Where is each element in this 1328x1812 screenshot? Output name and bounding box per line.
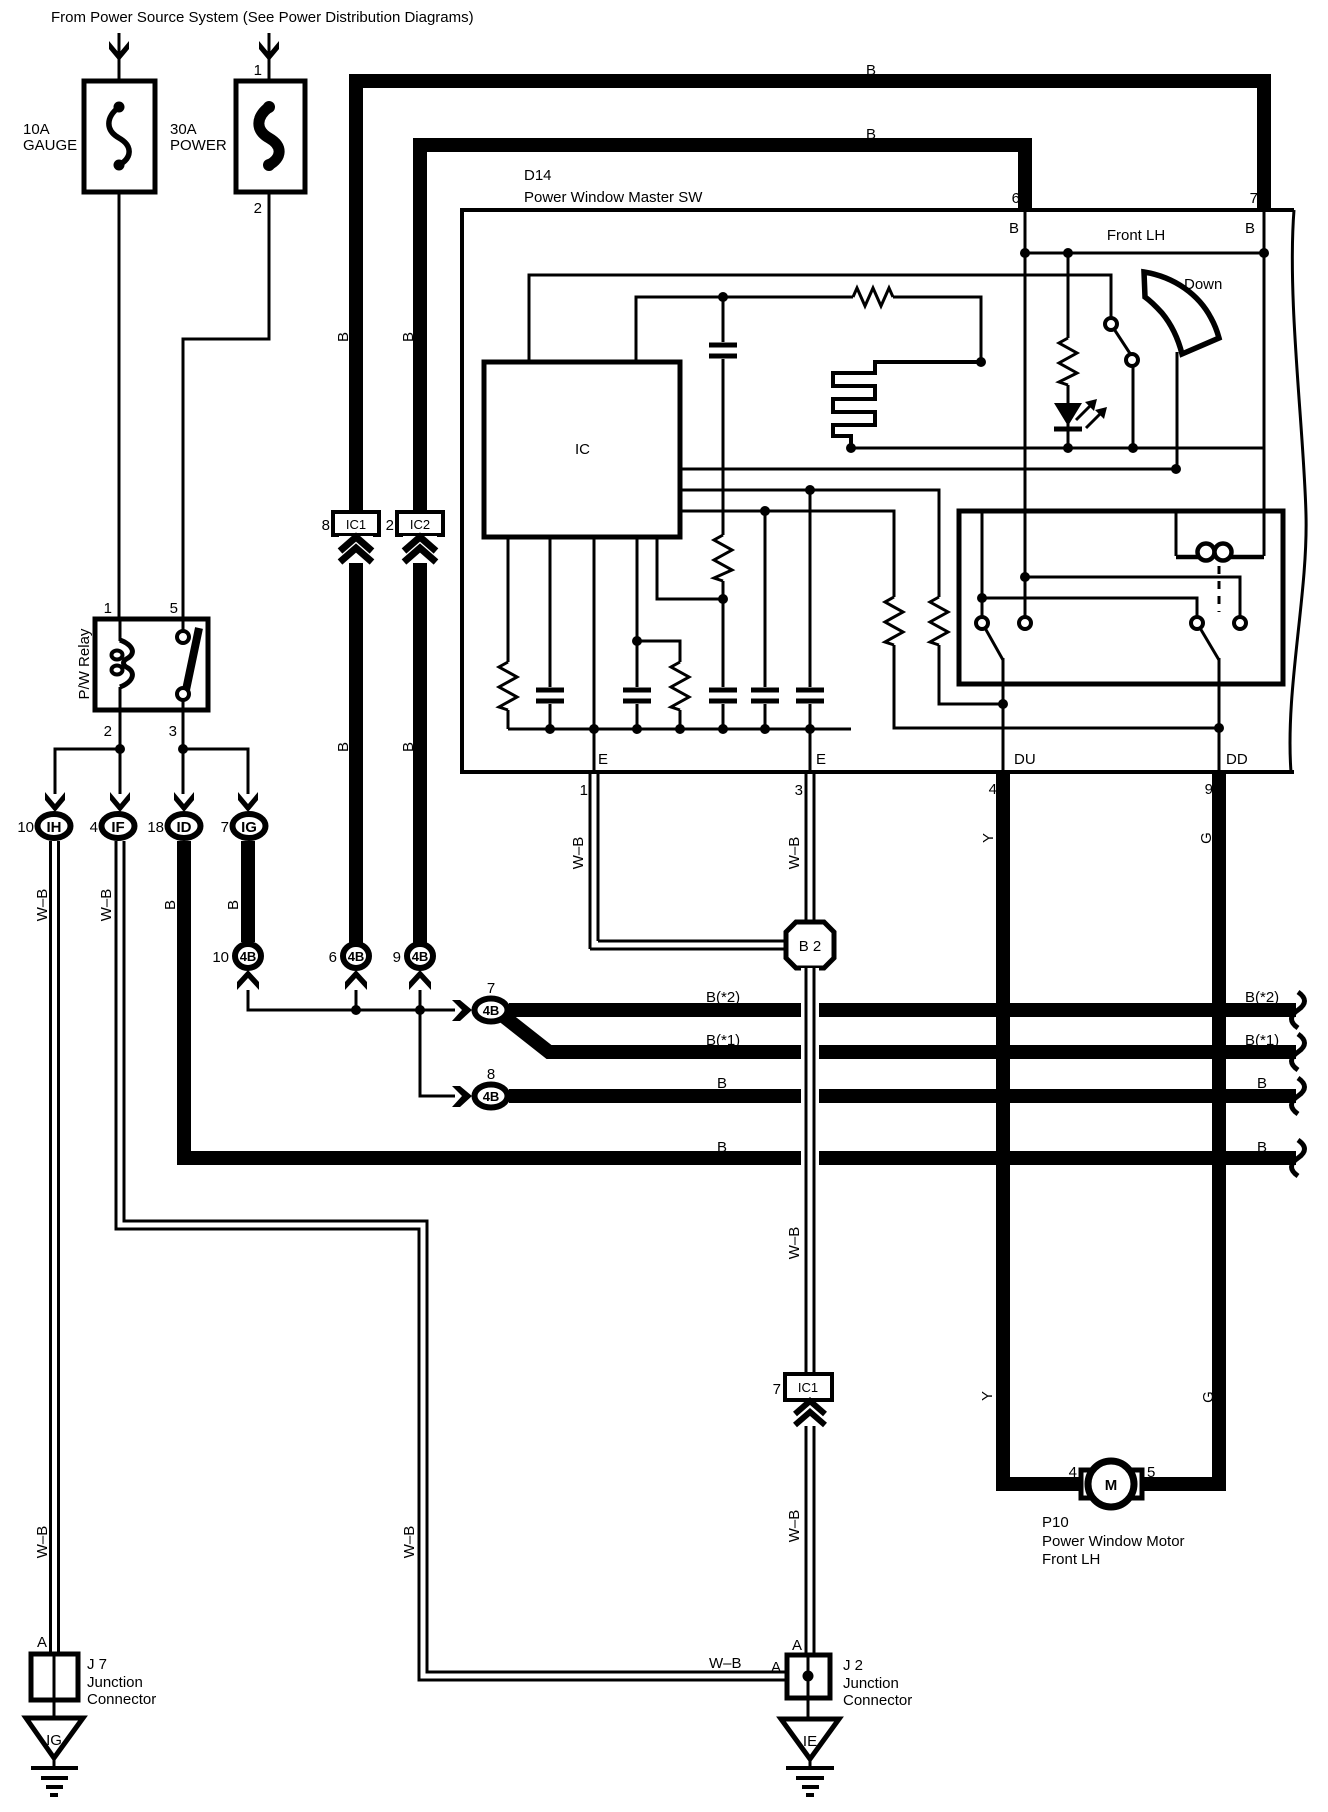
svg-text:Connector: Connector [87, 1691, 156, 1708]
svg-text:A: A [792, 1637, 802, 1654]
svg-text:IG: IG [46, 1732, 62, 1749]
svg-text:B(*2): B(*2) [1245, 989, 1279, 1006]
svg-text:10A: 10A [23, 121, 50, 138]
svg-text:A: A [37, 1634, 47, 1651]
svg-text:5: 5 [1147, 1464, 1155, 1481]
svg-text:4B: 4B [483, 1003, 500, 1018]
svg-text:4B: 4B [240, 949, 257, 964]
svg-text:5: 5 [170, 600, 178, 617]
svg-text:M: M [1105, 1477, 1118, 1494]
svg-text:W–B: W–B [98, 889, 115, 922]
svg-text:E: E [816, 751, 826, 768]
svg-text:B: B [400, 332, 417, 342]
svg-text:9: 9 [1205, 781, 1213, 798]
svg-text:W–B: W–B [570, 837, 587, 870]
svg-text:7: 7 [221, 819, 229, 836]
svg-text:W–B: W–B [34, 889, 51, 922]
svg-text:10: 10 [17, 819, 34, 836]
svg-text:B: B [1257, 1139, 1267, 1156]
svg-text:Y: Y [980, 833, 997, 843]
svg-text:9: 9 [393, 949, 401, 966]
svg-text:2: 2 [386, 517, 394, 534]
svg-text:B: B [866, 126, 876, 143]
svg-text:G: G [1198, 832, 1215, 844]
svg-text:IC: IC [575, 441, 590, 458]
svg-text:4: 4 [90, 819, 98, 836]
svg-text:ID: ID [177, 819, 192, 836]
svg-text:B 2: B 2 [799, 938, 822, 955]
svg-text:3: 3 [795, 782, 803, 799]
svg-text:DD: DD [1226, 751, 1248, 768]
svg-text:DU: DU [1014, 751, 1036, 768]
svg-text:Y: Y [979, 1391, 996, 1401]
svg-text:J 7: J 7 [87, 1656, 107, 1673]
svg-text:Front LH: Front LH [1107, 227, 1165, 244]
svg-text:18: 18 [147, 819, 164, 836]
svg-text:IF: IF [111, 819, 124, 836]
svg-text:B: B [717, 1075, 727, 1092]
svg-text:P10: P10 [1042, 1514, 1069, 1531]
svg-text:Power Window Master SW: Power Window Master SW [524, 189, 703, 206]
svg-text:B: B [866, 62, 876, 79]
svg-text:D14: D14 [524, 167, 552, 184]
svg-text:B(*1): B(*1) [1245, 1032, 1279, 1049]
svg-text:8: 8 [487, 1066, 495, 1083]
svg-text:B: B [1245, 220, 1255, 237]
svg-text:From Power Source System (See: From Power Source System (See Power Dist… [51, 9, 474, 26]
svg-text:B(*2): B(*2) [706, 989, 740, 1006]
svg-text:B(*1): B(*1) [706, 1032, 740, 1049]
svg-text:IC1: IC1 [346, 517, 366, 532]
svg-text:1: 1 [580, 782, 588, 799]
svg-text:Front LH: Front LH [1042, 1551, 1100, 1568]
svg-text:IG: IG [241, 819, 257, 836]
svg-text:7: 7 [773, 1381, 781, 1398]
svg-text:2: 2 [254, 200, 262, 217]
svg-text:IC2: IC2 [410, 517, 430, 532]
svg-text:Power Window Motor: Power Window Motor [1042, 1533, 1185, 1550]
svg-text:8: 8 [322, 517, 330, 534]
svg-text:B: B [1257, 1075, 1267, 1092]
svg-text:Junction: Junction [87, 1674, 143, 1691]
svg-text:E: E [598, 751, 608, 768]
svg-text:B: B [162, 900, 179, 910]
svg-text:B: B [335, 332, 352, 342]
svg-text:4: 4 [1069, 1464, 1077, 1481]
svg-text:Junction: Junction [843, 1675, 899, 1692]
svg-text:4B: 4B [348, 949, 365, 964]
svg-text:POWER: POWER [170, 137, 227, 154]
svg-text:10: 10 [212, 949, 229, 966]
svg-text:30A: 30A [170, 121, 197, 138]
svg-text:GAUGE: GAUGE [23, 137, 77, 154]
svg-text:P/W Relay: P/W Relay [76, 628, 93, 699]
svg-text:W–B: W–B [401, 1526, 418, 1559]
svg-text:7: 7 [1250, 190, 1258, 207]
svg-text:4B: 4B [483, 1089, 500, 1104]
svg-text:W–B: W–B [709, 1655, 742, 1672]
svg-text:Connector: Connector [843, 1692, 912, 1709]
svg-text:4B: 4B [412, 949, 429, 964]
svg-text:B: B [717, 1139, 727, 1156]
svg-text:W–B: W–B [786, 1510, 803, 1543]
svg-text:2: 2 [104, 723, 112, 740]
svg-text:6: 6 [329, 949, 337, 966]
svg-text:3: 3 [169, 723, 177, 740]
svg-text:1: 1 [104, 600, 112, 617]
svg-text:B: B [225, 900, 242, 910]
svg-text:6: 6 [1012, 190, 1020, 207]
svg-text:IE: IE [803, 1733, 817, 1750]
svg-text:7: 7 [487, 980, 495, 997]
svg-text:W–B: W–B [34, 1526, 51, 1559]
svg-text:IH: IH [47, 819, 62, 836]
svg-text:W–B: W–B [786, 837, 803, 870]
svg-text:IC1: IC1 [798, 1380, 818, 1395]
svg-text:J 2: J 2 [843, 1657, 863, 1674]
svg-text:1: 1 [254, 62, 262, 79]
svg-text:G: G [1200, 1391, 1217, 1403]
svg-text:A: A [771, 1659, 781, 1676]
svg-text:W–B: W–B [786, 1227, 803, 1260]
svg-text:4: 4 [989, 781, 997, 798]
svg-text:B: B [1009, 220, 1019, 237]
